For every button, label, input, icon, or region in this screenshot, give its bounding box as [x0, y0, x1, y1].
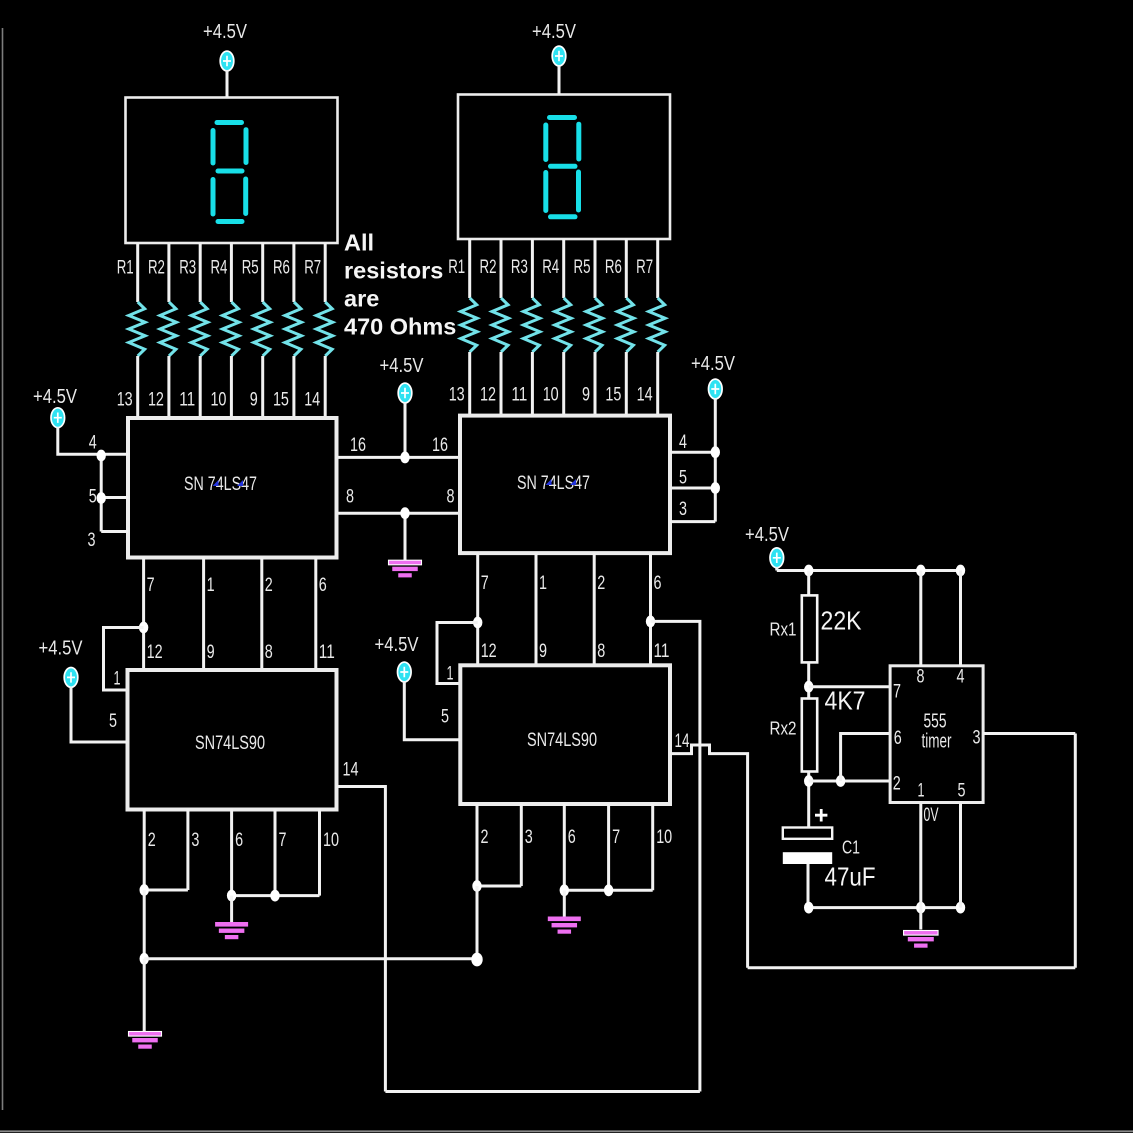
resistor R5 (bank 2)	[574, 239, 603, 414]
ground G5	[904, 931, 939, 936]
svg-text:1: 1	[539, 572, 547, 594]
svg-text:12: 12	[147, 641, 163, 663]
junction U1 pin5	[97, 492, 106, 504]
svg-text:0V: 0V	[924, 804, 939, 826]
svg-text:+4.5V: +4.5V	[33, 386, 78, 408]
wire U2 pin 4	[670, 451, 715, 454]
svg-text:11: 11	[319, 641, 335, 663]
svg-text:12: 12	[481, 640, 497, 662]
svg-text:4: 4	[89, 431, 97, 453]
resistor R6 (bank 2)	[605, 239, 634, 414]
svg-text:9: 9	[207, 641, 215, 663]
wire P6 to U3 pin 5	[71, 687, 128, 742]
junction carry on U2.6/U4.11 wire	[646, 616, 655, 628]
svg-text:5: 5	[109, 710, 117, 732]
junction pin8/ground	[400, 507, 409, 519]
wire U3 pin 7	[274, 810, 277, 896]
svg-text:+4.5V: +4.5V	[375, 634, 420, 656]
svg-text:11: 11	[511, 384, 527, 406]
wire U4 pins 6-7-10 link	[564, 889, 652, 892]
svg-text:R6: R6	[273, 257, 290, 279]
svg-text:Rx1: Rx1	[770, 619, 797, 640]
wire 555 pin 8	[919, 571, 922, 667]
svg-text:+4.5V: +4.5V	[691, 353, 736, 375]
capacitor C1 bottom plate	[783, 852, 832, 864]
junction Rx1 bottom	[804, 681, 813, 693]
svg-text:8: 8	[917, 665, 925, 687]
svg-text:5: 5	[441, 706, 449, 728]
svg-text:11: 11	[179, 389, 195, 411]
wire U3 pins 6-7-10 link	[232, 894, 320, 897]
junction P4/pin16	[400, 452, 409, 464]
svg-text:7: 7	[147, 574, 155, 596]
wire rail to Rx1	[807, 571, 810, 596]
resistor R7 (bank 1)	[304, 243, 333, 418]
wire U2 pin 7 to U4 pin 12	[476, 554, 479, 666]
wire 555 loop right riser	[1074, 734, 1077, 968]
svg-text:7: 7	[612, 826, 620, 848]
svg-text:4: 4	[957, 665, 965, 687]
junction rail corner pin4	[956, 565, 965, 577]
wire U1 pins 4-5-3 link	[100, 454, 103, 531]
wire U4 pin 14 with hop, down to 555 loop	[670, 745, 748, 968]
resistor R1 (bank 1)	[117, 243, 146, 418]
svg-text:R6: R6	[605, 256, 622, 278]
svg-text:13: 13	[117, 389, 133, 411]
svg-text:8: 8	[597, 640, 605, 662]
svg-text:16: 16	[432, 434, 448, 456]
junction bottom rail pin1	[916, 902, 925, 914]
wire U1 pin 3 stub	[101, 530, 128, 533]
svg-text:+4.5V: +4.5V	[39, 638, 84, 660]
wire loop junction to U3 pin 1	[104, 628, 144, 691]
junction U4 pin2	[472, 880, 481, 892]
resistor Rx2	[802, 699, 817, 772]
wire bottom link U3-U4	[144, 957, 477, 960]
svg-text:4K7: 4K7	[825, 686, 866, 716]
wire net pin8 U1-U2	[339, 512, 459, 515]
7-segment display DS2	[458, 95, 670, 240]
junction U3 pin7	[270, 890, 279, 902]
svg-text:3: 3	[191, 829, 199, 851]
wire U1 pin 7 to U3 pin 12	[142, 558, 145, 671]
junction Rx2 bottom	[804, 775, 813, 787]
junction on U1.7/U3.12 wire	[139, 622, 148, 634]
junction U3 pin6	[227, 890, 236, 902]
svg-text:4: 4	[679, 431, 687, 453]
wire to 555 pin 7	[809, 685, 890, 688]
svg-text:11: 11	[654, 640, 670, 662]
wire U2 pin 3	[670, 520, 715, 523]
svg-text:7: 7	[893, 681, 901, 703]
svg-text:+4.5V: +4.5V	[203, 21, 248, 43]
svg-text:16: 16	[350, 434, 366, 456]
wire Rx2 bottom node	[807, 772, 810, 828]
resistor R2 (bank 2)	[480, 239, 509, 414]
svg-text:6: 6	[319, 574, 327, 596]
wire bottom rail to ground G5	[919, 908, 922, 930]
svg-text:13: 13	[449, 384, 465, 406]
svg-text:10: 10	[210, 389, 226, 411]
resistor R6 (bank 1)	[273, 243, 302, 418]
wire 555 pin 1 down	[919, 803, 922, 908]
wire U4 pins 2-3 link	[477, 885, 521, 888]
svg-text:5: 5	[89, 486, 97, 508]
ground G1	[389, 560, 422, 565]
junction U2 pin5	[711, 482, 720, 494]
resistor R7 (bank 2)	[636, 239, 665, 414]
svg-text:14: 14	[343, 759, 359, 781]
svg-text:8: 8	[447, 486, 455, 508]
svg-text:9: 9	[582, 384, 590, 406]
svg-text:2: 2	[481, 826, 489, 848]
wire U2 pin 1 to U4 pin 9	[535, 554, 538, 666]
svg-text:R2: R2	[148, 257, 165, 279]
resistor R2 (bank 1)	[148, 243, 177, 418]
wire U3 pin2 down	[143, 890, 146, 959]
svg-text:R5: R5	[242, 257, 259, 279]
junction bottom-left	[140, 953, 149, 965]
svg-text:R7: R7	[304, 257, 321, 279]
svg-text:R4: R4	[210, 257, 227, 279]
svg-text:10: 10	[656, 826, 672, 848]
svg-text:7: 7	[481, 572, 489, 594]
svg-text:22K: 22K	[821, 606, 863, 636]
7-segment display DS1	[126, 98, 338, 244]
svg-text:1: 1	[447, 663, 454, 685]
svg-text:6: 6	[654, 572, 662, 594]
junction U4 pin6	[560, 884, 569, 896]
svg-text:3: 3	[679, 498, 687, 520]
wire Rx1 to Rx2	[807, 662, 810, 698]
junction U1 pin4	[97, 450, 106, 462]
svg-text:8: 8	[265, 641, 273, 663]
resistor R4 (bank 1)	[210, 243, 239, 418]
IC U4 SN74LS90	[460, 665, 670, 804]
svg-text:1: 1	[207, 574, 215, 596]
wire U3 pin 14 down to bottom rail	[337, 787, 386, 1092]
svg-text:8: 8	[346, 486, 354, 508]
IC U1 SN 74LS47	[128, 418, 337, 558]
svg-text:C1: C1	[842, 837, 860, 858]
ground G3	[129, 1032, 162, 1037]
wire U4 pin 2	[476, 804, 479, 886]
svg-text:9: 9	[539, 640, 547, 662]
wire 555 pin 5 down	[959, 803, 962, 908]
junction rail/Rx1	[804, 565, 813, 577]
svg-text:2: 2	[148, 829, 156, 851]
svg-text:9: 9	[250, 389, 258, 411]
junction rail/555 pin8	[916, 565, 925, 577]
wire junction to ground G3	[143, 959, 146, 1031]
wire U3 pin6 to ground	[230, 896, 233, 922]
svg-text:R2: R2	[480, 256, 497, 278]
resistor Rx1	[802, 595, 817, 662]
svg-text:10: 10	[543, 384, 559, 406]
digit segments DS1	[213, 123, 246, 222]
wire bottom carry rail	[385, 1090, 700, 1093]
svg-text:Rx2: Rx2	[770, 718, 797, 739]
svg-text:R4: R4	[542, 256, 559, 278]
wire U1 pin 1 to U3 pin 9	[202, 558, 205, 671]
svg-text:14: 14	[304, 389, 320, 411]
resistor R3 (bank 2)	[511, 239, 540, 414]
svg-text:3: 3	[525, 826, 533, 848]
resistor R1 (bank 2)	[448, 239, 477, 414]
svg-text:+4.5V: +4.5V	[532, 21, 577, 43]
wire U3 pin 3	[186, 810, 189, 891]
wire carry junction right and down	[651, 621, 700, 1091]
svg-text:R1: R1	[448, 256, 465, 278]
wire C1 to bottom rail	[807, 864, 810, 908]
svg-text:2: 2	[893, 773, 901, 795]
wire U3 pin 6	[230, 810, 233, 896]
wire loop junction to U4 pin 1	[437, 623, 478, 684]
wire P3 to U1 pin 4	[58, 427, 128, 454]
svg-text:R3: R3	[179, 257, 196, 279]
svg-text:SN 74LS47: SN 74LS47	[184, 474, 257, 495]
svg-text:R3: R3	[511, 256, 528, 278]
wire U3 pin 10	[318, 810, 321, 896]
wire U3 pins 2-3 link	[144, 889, 188, 892]
wire net pin16 U1-U2	[339, 456, 459, 459]
wire top supply rail 555	[777, 567, 961, 571]
wire U4 pin6 to ground	[563, 890, 566, 916]
wire pin8 to ground	[404, 513, 407, 561]
svg-text:1: 1	[114, 668, 121, 690]
wire U4 pin2 down	[476, 886, 479, 960]
junction on U2.7/U4.12 wire	[473, 617, 482, 629]
svg-text:SN 74LS47: SN 74LS47	[517, 473, 590, 494]
svg-text:14: 14	[637, 384, 653, 406]
wire U4 pin 7	[607, 804, 610, 890]
svg-text:5: 5	[679, 467, 687, 489]
wire U2 pin 6 to U4 pin 11	[649, 554, 652, 666]
wire U1 pin 2 to U3 pin 8	[260, 558, 263, 671]
svg-text:3: 3	[973, 727, 981, 749]
svg-text:12: 12	[480, 384, 496, 406]
resistor R5 (bank 1)	[242, 243, 271, 418]
capacitor C1 top plate	[783, 828, 832, 839]
wire U3 pin 2	[143, 810, 146, 891]
svg-text:+4.5V: +4.5V	[745, 524, 790, 546]
junction bottom rail corner pin5	[956, 902, 965, 914]
wire 555 pin 3 output	[983, 732, 1075, 735]
wire branch to 555 pin 6	[841, 734, 890, 782]
junction bottom rail left	[804, 902, 813, 914]
wire U4 pin 6	[563, 804, 566, 890]
svg-text:6: 6	[568, 826, 576, 848]
svg-text:3: 3	[88, 529, 96, 551]
wire U2 pin 5	[670, 487, 715, 490]
wire 555 pin 4	[959, 571, 962, 667]
svg-text:R5: R5	[574, 256, 591, 278]
svg-text:14: 14	[675, 730, 690, 752]
svg-text:6: 6	[894, 727, 902, 749]
wire P7 to U4 pin 5	[404, 682, 460, 740]
svg-text:6: 6	[235, 829, 243, 851]
IC U5 555 timer	[890, 666, 983, 803]
junction U4 pin7	[604, 884, 613, 896]
svg-text:2: 2	[265, 574, 273, 596]
svg-text:R1: R1	[117, 257, 134, 279]
ground G2	[215, 922, 248, 927]
wire U4 pin 3	[520, 804, 523, 886]
junction U2 pin4	[711, 446, 720, 458]
wire U2 pin 2 to U4 pin 8	[593, 554, 596, 666]
digit segments DS2	[546, 118, 579, 217]
IC U2 SN 74LS47	[460, 416, 670, 553]
capacitor C1 polarity +	[815, 809, 827, 822]
scan edge line left	[2, 28, 4, 1110]
svg-text:15: 15	[605, 384, 621, 406]
svg-text:SN74LS90: SN74LS90	[195, 733, 265, 754]
junction pin6 branch	[836, 775, 845, 787]
svg-text:R7: R7	[636, 256, 653, 278]
wire U1 pin 5 stub	[101, 496, 128, 499]
wire P5 down to U2 pin3 level	[714, 398, 717, 521]
svg-text:SN74LS90: SN74LS90	[527, 730, 597, 751]
svg-text:timer: timer	[922, 730, 952, 753]
scan edge line bottom	[0, 1130, 1133, 1132]
wire bottom 555 loop rail	[748, 966, 1076, 969]
junction bottom-middle	[471, 953, 482, 967]
wire node to 555 pin 2	[809, 780, 890, 783]
svg-text:15: 15	[273, 389, 289, 411]
junction U3 pin2	[140, 884, 149, 896]
wire U1 pin 6 to U3 pin 11	[314, 558, 317, 671]
svg-text:+4.5V: +4.5V	[380, 355, 425, 377]
svg-text:7: 7	[279, 829, 287, 851]
wire bottom ground rail 555	[809, 906, 961, 909]
svg-text:5: 5	[958, 779, 966, 801]
wire U4 pin 10	[651, 804, 654, 890]
svg-text:1: 1	[918, 779, 925, 801]
svg-text:10: 10	[323, 829, 339, 851]
svg-text:2: 2	[597, 572, 605, 594]
resistor R4 (bank 2)	[542, 239, 571, 414]
IC U3 SN74LS90	[128, 670, 337, 810]
svg-text:47uF: 47uF	[825, 862, 876, 892]
svg-text:12: 12	[148, 389, 164, 411]
ground G4	[548, 917, 581, 922]
resistor R3 (bank 1)	[179, 243, 208, 418]
